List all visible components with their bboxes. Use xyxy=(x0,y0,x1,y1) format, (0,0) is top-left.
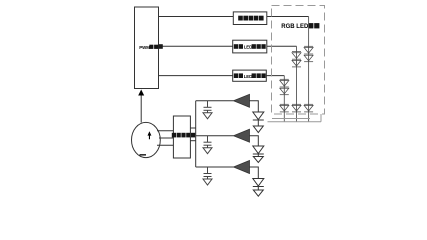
dashed box RGB LED array xyxy=(272,6,325,115)
LED D8 column C xyxy=(280,88,289,95)
block U4 blue driver xyxy=(233,70,267,81)
wire battery to regulator pin2 xyxy=(159,137,173,139)
svg-text:RGB LED: RGB LED xyxy=(281,24,309,30)
block U5 regulator xyxy=(172,116,195,158)
wire A1 output xyxy=(250,101,259,112)
wire LED column C xyxy=(283,76,285,122)
wire output bus vertical xyxy=(195,101,197,167)
capacitor C3 xyxy=(204,167,212,179)
block U3 green driver xyxy=(233,40,267,53)
label RGB LED array xyxy=(281,23,319,30)
wire cathode bus 2 xyxy=(268,121,322,123)
ground D10 xyxy=(253,126,263,133)
wire blue PWM channel xyxy=(159,75,285,77)
wire rail channel 2 xyxy=(196,135,234,137)
amplifier A1 xyxy=(234,94,250,107)
ground C2 xyxy=(203,148,212,154)
svg-text:LED: LED xyxy=(244,45,253,50)
wire LED column A xyxy=(308,17,310,122)
svg-text:LED: LED xyxy=(244,74,253,79)
ground C3 xyxy=(203,179,212,185)
LED D3 column A xyxy=(304,103,313,105)
wire A3 output xyxy=(250,167,259,179)
LED D6 column B xyxy=(292,103,301,105)
amplifier A2 xyxy=(234,129,250,142)
block U2 red driver xyxy=(233,12,266,25)
wire red PWM channel xyxy=(159,16,309,18)
diode D10 xyxy=(253,112,264,126)
capacitor C1 xyxy=(204,101,212,113)
diode D12 xyxy=(253,179,264,191)
LED D1 column A xyxy=(304,45,313,47)
wire regulator output pin top xyxy=(190,127,195,129)
wire A2 output xyxy=(250,136,259,146)
wire battery to regulator pin3 xyxy=(157,144,173,146)
wire rail channel 1 xyxy=(196,100,234,102)
battery source BT1 xyxy=(132,122,161,157)
wire bus riser xyxy=(320,114,322,122)
diode D11 xyxy=(253,146,264,157)
wire rail channel 3 xyxy=(196,166,234,168)
block U1 PWM controller xyxy=(135,7,163,89)
wire supply feedback arrow xyxy=(138,90,144,123)
LED D9 column C xyxy=(280,103,289,105)
LED D7 column C xyxy=(280,78,289,80)
ground C1 xyxy=(203,113,212,119)
svg-text:PWM: PWM xyxy=(139,45,150,50)
wire battery to regulator pin1 xyxy=(157,130,173,132)
capacitor C2 xyxy=(204,136,212,148)
LED D2 column A xyxy=(304,55,313,62)
wire LED column B xyxy=(296,46,298,122)
wire regulator output pin bottom xyxy=(190,140,195,142)
ground D11 xyxy=(253,157,263,163)
ground D12 xyxy=(253,190,263,196)
amplifier A3 xyxy=(234,161,250,174)
LED D4 column B xyxy=(292,51,301,53)
wire green PWM channel xyxy=(159,45,297,47)
LED D5 column B xyxy=(292,60,301,67)
wire cathode bus 1 xyxy=(272,118,310,120)
